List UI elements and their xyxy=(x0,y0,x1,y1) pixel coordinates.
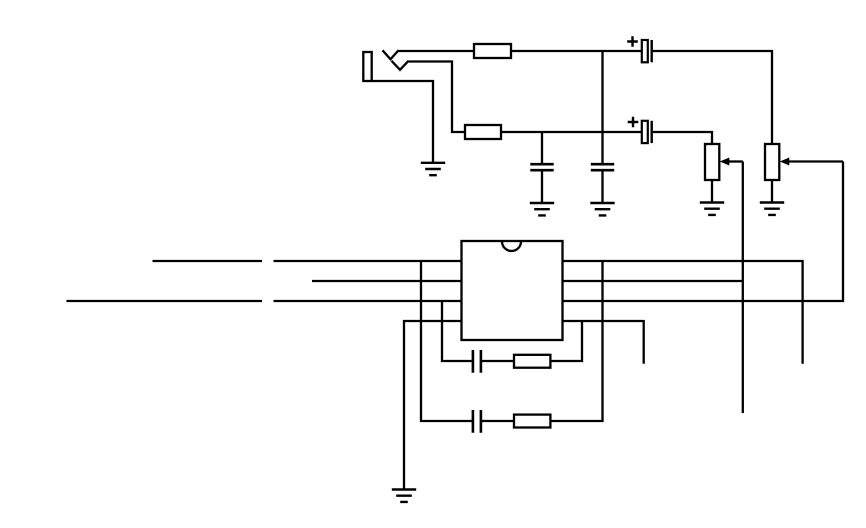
feedback net OUT1-C13-R9-IN1- xyxy=(421,261,603,421)
ground (U1 GND pin) xyxy=(392,490,416,502)
resistor R5 body xyxy=(474,44,511,58)
U1 pin VDD wire (left row 2) xyxy=(312,280,462,282)
U1 pin IN1- wire (right row 1) to R7 xyxy=(563,261,803,364)
potentiometer VR1b body xyxy=(705,144,719,180)
wire VR1a bottom xyxy=(771,180,773,203)
J1 ring contact xyxy=(392,61,409,70)
ground (C12) xyxy=(530,203,554,215)
feedback net OUT2-C14-R10-IN2- xyxy=(442,301,582,361)
op-amp U1 TDA2822M body xyxy=(462,241,563,340)
capacitor C9 (electrolytic) xyxy=(627,36,652,62)
potentiometer VR1a body xyxy=(765,144,779,180)
capacitor C12 plates xyxy=(530,164,553,170)
resistor R6 body xyxy=(465,125,501,139)
wire tip to R5 xyxy=(398,50,475,52)
wire VR1b bottom xyxy=(711,180,713,203)
capacitor C13 plates xyxy=(473,410,481,433)
ground (VR1a) xyxy=(760,203,784,215)
capacitor C14 plates xyxy=(473,350,481,373)
wire J1 sleeve to ground xyxy=(372,81,433,163)
wire VR1a wiper down to IN2+ row xyxy=(563,162,844,302)
ground (C11) xyxy=(590,203,614,215)
resistor R10 body xyxy=(514,355,550,368)
wire R6 to C10 xyxy=(501,131,642,133)
VR1a wiper arrow xyxy=(780,158,843,166)
VR1b wiper arrow xyxy=(720,158,743,166)
wire C10 to VR1b top xyxy=(653,132,712,144)
U1 pin OUT1 wire (left row 1) xyxy=(153,260,462,262)
capacitor C11 plates xyxy=(591,164,614,170)
capacitor C12 leads xyxy=(541,132,543,203)
wire C9 to VR1a top xyxy=(653,51,772,144)
connector J1 3.5mm jack body xyxy=(363,52,371,81)
U1 pin IN2- wire (right row 4) to R8 xyxy=(563,321,644,364)
U1 pin GND wire to ground xyxy=(404,321,462,490)
wire ring to R6 xyxy=(409,62,466,133)
ground (J1 sleeve) xyxy=(421,163,445,175)
U1 pin IN1+ wire (right row 2) xyxy=(563,280,743,282)
ground (VR1b) xyxy=(700,203,724,215)
wire R5 to node A xyxy=(511,50,642,52)
resistor R9 body xyxy=(514,415,550,428)
wire VR1b wiper down to IN1+ net xyxy=(742,162,744,414)
capacitor C10 (electrolytic) xyxy=(628,117,652,143)
U1 pin OUT2 wire (left row 3) xyxy=(66,300,461,302)
capacitor C11 leads / wire from node A xyxy=(601,51,603,203)
J1 tip contact xyxy=(383,50,399,59)
